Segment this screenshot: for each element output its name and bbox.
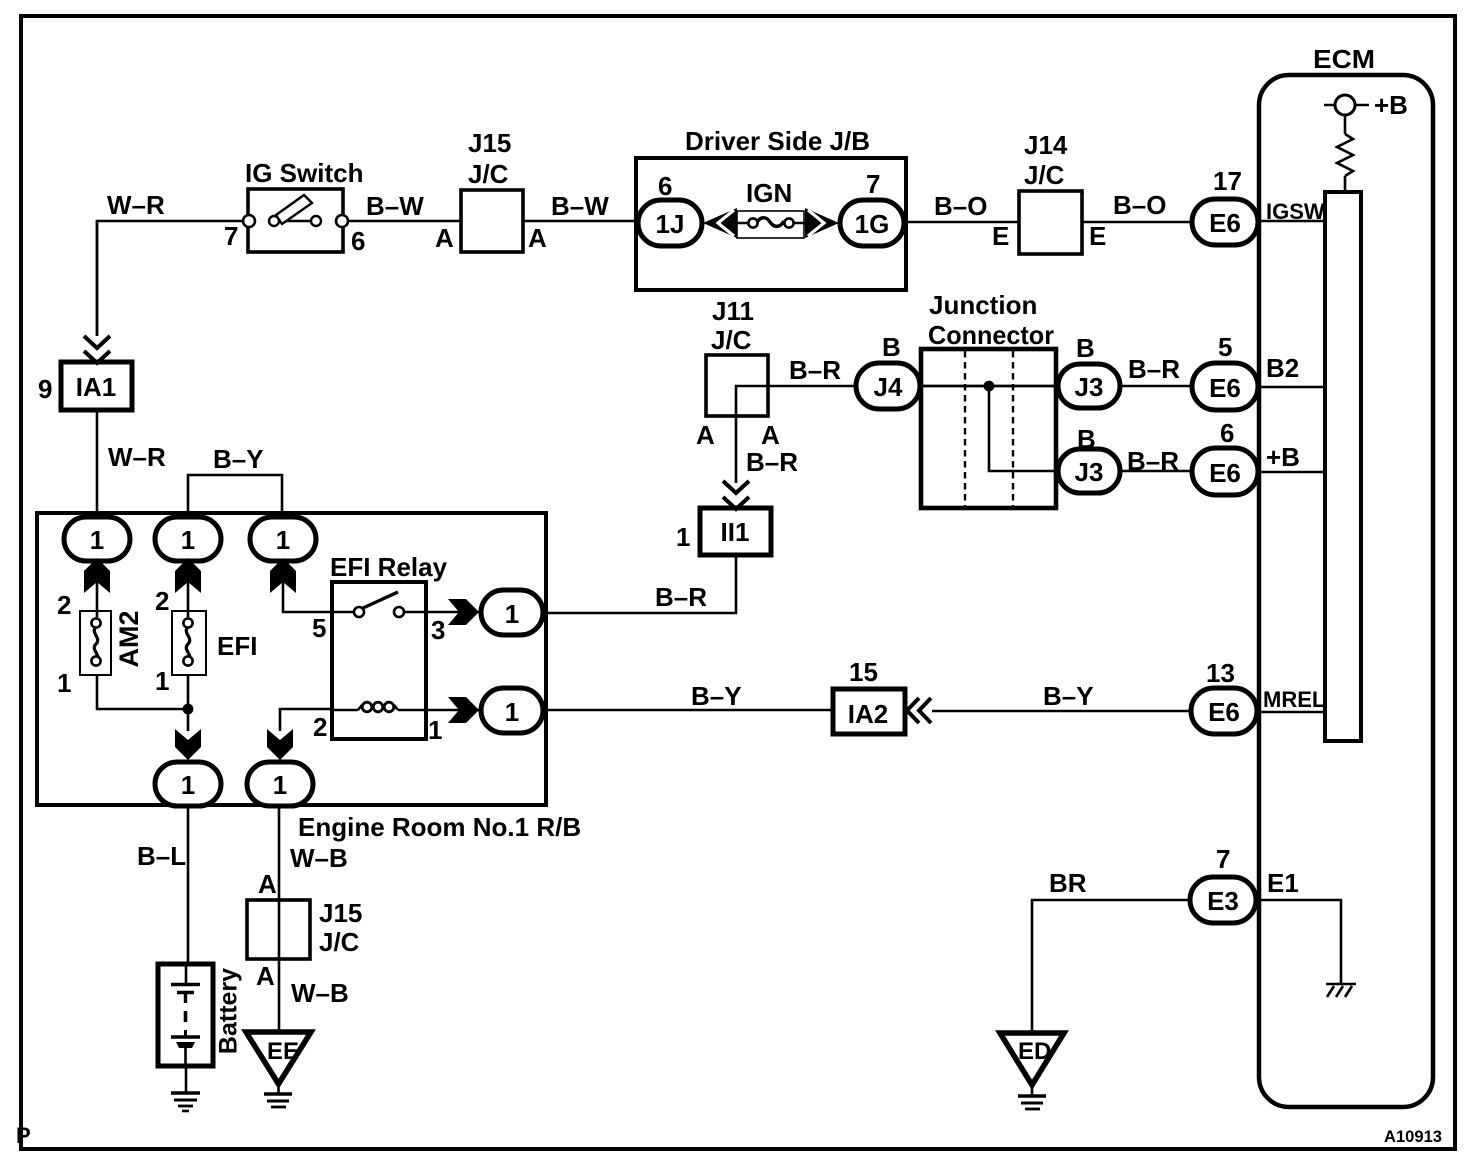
svg-text:1: 1 <box>428 715 442 745</box>
connector oval 1G <box>840 200 904 246</box>
connector oval E6 pin 6 <box>1192 448 1258 495</box>
wire battery to ground <box>185 1065 188 1093</box>
wire EE to ground <box>277 1084 280 1093</box>
ground point ED <box>1000 1033 1064 1085</box>
svg-text:17: 17 <box>1213 166 1242 196</box>
black arrow down into bottom oval 1 <box>175 729 201 760</box>
connector IA1 <box>61 362 132 410</box>
wire W-R IA1 to fuse block <box>96 410 99 517</box>
black arrow right into oval <box>448 697 479 723</box>
svg-text:B–R: B–R <box>789 355 841 385</box>
svg-text:B–Y: B–Y <box>1043 681 1094 711</box>
svg-text:EFI: EFI <box>217 631 257 661</box>
black arrow up under oval 3 <box>270 558 296 593</box>
svg-text:W–B: W–B <box>291 978 349 1008</box>
wire IGSW pin to bus <box>1259 220 1325 223</box>
EFI Relay box <box>332 582 426 739</box>
connector oval J4 <box>856 363 920 409</box>
junction connector J14 <box>1019 191 1082 254</box>
dashed partition lines <box>964 351 966 506</box>
connector oval 1 (bottom row second) <box>247 762 313 806</box>
svg-text:1: 1 <box>90 525 104 555</box>
wire relay coil pin 2 to bottom oval 2 <box>280 709 332 731</box>
svg-text:B–O: B–O <box>1113 190 1166 220</box>
wire J4 through junction connector <box>920 385 1058 388</box>
svg-text:IGSW: IGSW <box>1266 199 1325 224</box>
wire B-R J3 to E6 pin 5 <box>1120 385 1192 388</box>
svg-text:B–R: B–R <box>655 582 707 612</box>
wire +B to resistor <box>1344 115 1347 134</box>
svg-text:J14: J14 <box>1024 130 1068 160</box>
svg-text:1: 1 <box>57 668 71 698</box>
svg-text:B–Y: B–Y <box>691 681 742 711</box>
svg-text:ED: ED <box>1018 1038 1051 1065</box>
svg-text:A: A <box>435 223 454 253</box>
fuse AM2 <box>80 611 111 675</box>
svg-text:J/C: J/C <box>711 325 752 355</box>
svg-text:J11: J11 <box>712 296 754 326</box>
wire B-Y relay coil output to IA2 <box>543 709 833 712</box>
svg-text:IG Switch: IG Switch <box>245 158 363 188</box>
svg-text:B–L: B–L <box>137 841 186 871</box>
svg-text:W–B: W–B <box>290 843 348 873</box>
connector II1 <box>700 508 771 555</box>
wire B-R lower J3 to E6 pin 6 <box>1120 470 1192 473</box>
svg-text:II1: II1 <box>721 517 750 547</box>
svg-text:J/C: J/C <box>319 927 360 957</box>
splice arrow into IA2 (double chevron) <box>907 698 931 723</box>
svg-text:6: 6 <box>658 171 672 201</box>
svg-text:Driver Side J/B: Driver Side J/B <box>685 126 870 156</box>
junction connector J15 (bottom) <box>247 900 310 959</box>
ground symbol below EE <box>264 1094 292 1107</box>
svg-text:5: 5 <box>312 613 326 643</box>
connector oval 1 (top row third) <box>250 517 316 561</box>
connector oval E3 pin 7 <box>1190 877 1256 923</box>
svg-text:Battery: Battery <box>215 968 243 1054</box>
node +B internal <box>1324 104 1369 107</box>
wire B2 pin to bus <box>1259 386 1325 389</box>
ECM module outline <box>1259 75 1433 1107</box>
svg-text:1: 1 <box>505 599 519 629</box>
svg-text:E6: E6 <box>1209 208 1241 238</box>
svg-text:1: 1 <box>276 525 290 555</box>
wire through junction at 386 re-draw over dashes <box>921 385 1058 388</box>
svg-text:1: 1 <box>181 770 195 800</box>
wire B-O J/B to J14 <box>906 221 1019 224</box>
connector oval E6 pin 17 <box>1192 199 1258 245</box>
connector oval E6 pin 5 <box>1192 363 1258 410</box>
svg-text:AM2: AM2 <box>114 610 144 667</box>
wire MREL pin to bus <box>1259 711 1325 714</box>
wire B-R J11 to J4 <box>736 386 856 416</box>
ECM internal bus bar <box>1325 192 1361 741</box>
wire E1 pin to internal ground <box>1259 900 1341 983</box>
svg-text:MREL: MREL <box>1263 687 1325 712</box>
wire B-L bottom oval 1 to battery <box>187 806 190 965</box>
svg-text:J3: J3 <box>1075 457 1104 487</box>
svg-text:J3: J3 <box>1075 372 1104 402</box>
svg-text:IA2: IA2 <box>848 699 888 729</box>
svg-text:2: 2 <box>155 586 169 616</box>
svg-text:ECM: ECM <box>1313 44 1375 74</box>
svg-text:EE: EE <box>267 1038 299 1065</box>
svg-text:1J: 1J <box>656 209 685 239</box>
splice arrow into II1 (double chevron) <box>723 481 749 509</box>
Engine Room No.1 R/B box <box>37 513 546 805</box>
svg-text:B–R: B–R <box>1128 354 1180 384</box>
relay switch contacts <box>332 592 426 617</box>
svg-text:2: 2 <box>313 712 327 742</box>
wire B-W switch to J15 <box>348 220 461 223</box>
svg-text:J/C: J/C <box>468 159 509 189</box>
svg-text:Connector: Connector <box>928 320 1054 350</box>
svg-text:A: A <box>528 223 547 253</box>
svg-text:5: 5 <box>1218 332 1232 362</box>
svg-text:W–R: W–R <box>108 442 166 472</box>
svg-text:W–R: W–R <box>107 190 165 220</box>
connector oval J3 upper <box>1058 364 1120 408</box>
ground symbol below ED <box>1018 1096 1046 1109</box>
fuse EFI <box>172 611 206 675</box>
svg-text:1: 1 <box>505 697 519 727</box>
svg-text:E6: E6 <box>1209 458 1241 488</box>
wire BR from ED ground to E3 <box>1032 900 1190 1033</box>
splice dot fuse outputs <box>183 704 194 715</box>
relay coil <box>332 702 426 712</box>
connector IA2 <box>833 689 905 734</box>
svg-text:B: B <box>882 332 901 362</box>
black arrow right (into 1G) <box>805 208 839 238</box>
svg-text:+B: +B <box>1374 90 1408 120</box>
svg-text:1: 1 <box>181 525 195 555</box>
wire B-Y IA2 to E6 pin 13 <box>932 710 1191 713</box>
svg-text:E6: E6 <box>1209 373 1241 403</box>
wire B-R J11 down to II1 <box>735 416 738 483</box>
svg-text:BR: BR <box>1049 868 1087 898</box>
svg-text:IGN: IGN <box>746 178 792 208</box>
svg-text:A: A <box>696 420 715 450</box>
wire B-Y jumper between ovals 2 and 3 <box>188 475 282 517</box>
svg-text:+B: +B <box>1266 442 1300 472</box>
svg-text:B–Y: B–Y <box>213 444 264 474</box>
svg-text:A10913: A10913 <box>1384 1127 1442 1146</box>
svg-text:7: 7 <box>1216 844 1230 874</box>
wire B-O J14 to E6 <box>1082 221 1192 224</box>
svg-text:IA1: IA1 <box>76 372 116 402</box>
black arrow up under oval 1 <box>84 558 110 593</box>
svg-text:J4: J4 <box>874 372 903 402</box>
svg-text:Junction: Junction <box>929 290 1037 320</box>
wire EFI bottom through splice to arrow <box>187 675 190 731</box>
black arrow right into oval <box>448 599 479 625</box>
svg-text:J15: J15 <box>319 898 362 928</box>
fuse IGN <box>723 211 820 238</box>
wire W-R IA1 down to R/B oval <box>96 221 99 336</box>
black arrow up under oval 2 <box>175 558 201 593</box>
svg-text:Engine Room No.1 R/B: Engine Room No.1 R/B <box>298 812 581 842</box>
svg-text:1G: 1G <box>855 209 890 239</box>
battery <box>158 964 213 1066</box>
wire relay pin 1 to output oval <box>426 709 481 712</box>
svg-text:B: B <box>1076 333 1095 363</box>
svg-text:E: E <box>992 221 1009 251</box>
svg-text:7: 7 <box>866 169 880 199</box>
Junction Connector box <box>921 349 1056 508</box>
connector oval 1 (bottom row first) <box>155 762 221 806</box>
junction splice dot <box>984 381 995 392</box>
svg-text:7: 7 <box>224 221 238 251</box>
wire B-R II1 down to relay output <box>543 555 736 613</box>
svg-text:B2: B2 <box>1266 353 1299 383</box>
wire AM2 bottom to splice <box>97 675 188 709</box>
connector oval 1 (top row first) <box>64 517 130 561</box>
junction connector J11 box <box>706 355 768 416</box>
junction connector J15 (top) <box>461 190 523 252</box>
IG Switch SW1 <box>243 189 348 252</box>
svg-text:1: 1 <box>155 666 169 696</box>
wire B-W J15 to J/B <box>523 220 636 223</box>
svg-text:E1: E1 <box>1267 868 1299 898</box>
svg-text:3: 3 <box>431 615 445 645</box>
svg-text:B–R: B–R <box>746 447 798 477</box>
svg-text:1: 1 <box>273 770 287 800</box>
Driver Side J/B box <box>636 158 906 290</box>
connector oval J3 lower <box>1058 449 1120 493</box>
wire oval2 arrow to fuse EFI <box>187 582 190 617</box>
svg-text:A: A <box>256 961 275 991</box>
svg-text:6: 6 <box>1220 418 1234 448</box>
svg-text:B–W: B–W <box>551 191 609 221</box>
svg-text:J/C: J/C <box>1024 160 1065 190</box>
svg-text:B–R: B–R <box>1127 446 1179 476</box>
wire oval3 arrow down to relay pin 5 <box>283 582 332 612</box>
wire W-R from IG switch pin 7 left to corner <box>97 221 248 336</box>
svg-text:P: P <box>16 1123 31 1148</box>
wire oval1 arrow to fuse AM2 <box>96 582 99 617</box>
connector oval 1 (top row second) <box>155 517 221 561</box>
svg-text:E6: E6 <box>1208 697 1240 727</box>
ground symbol below battery <box>171 1093 200 1111</box>
svg-text:E3: E3 <box>1207 886 1239 916</box>
resistor R (internal pull-up) <box>1337 134 1353 176</box>
wire +B pin to bus <box>1259 471 1325 474</box>
ground point EE <box>246 1032 311 1084</box>
svg-text:EFI Relay: EFI Relay <box>330 552 448 582</box>
connector oval 1 (relay coil output) <box>481 688 543 733</box>
svg-text:6: 6 <box>351 226 365 256</box>
svg-text:9: 9 <box>38 374 52 404</box>
internal chassis ground <box>1326 984 1356 997</box>
black arrow down into bottom oval 2 <box>267 729 293 760</box>
svg-text:A: A <box>761 420 780 450</box>
svg-text:2: 2 <box>57 590 71 620</box>
svg-text:B–W: B–W <box>366 191 424 221</box>
black arrow left (into 1J) <box>703 208 737 238</box>
svg-text:1: 1 <box>676 522 690 552</box>
wire W-B bottom oval 2 down through J15 to EE <box>278 806 281 1032</box>
wire ED to ground <box>1031 1085 1034 1095</box>
svg-text:13: 13 <box>1206 658 1235 688</box>
svg-text:J15: J15 <box>468 128 511 158</box>
connector oval E6 pin 13 <box>1191 688 1257 734</box>
connector oval 1 (relay switch output) <box>481 590 543 635</box>
connector oval 1J <box>638 200 702 246</box>
svg-text:15: 15 <box>849 657 878 687</box>
svg-text:B–O: B–O <box>934 191 987 221</box>
wire resistor to bus bar <box>1344 176 1347 192</box>
svg-text:E: E <box>1089 221 1106 251</box>
splice arrow into IA1 (double chevron) <box>84 336 110 363</box>
wire splice down and right to lower J3 <box>989 386 1058 471</box>
svg-text:A: A <box>258 869 277 899</box>
wire relay pin 3 to output oval <box>426 611 481 614</box>
